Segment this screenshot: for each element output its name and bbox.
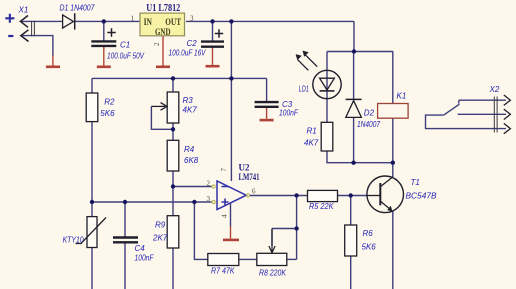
wire op-amp pin4 [230,203,232,226]
wire KTY10 top [91,202,93,217]
wire down to LED anode [326,52,328,123]
wire R9 bottom [172,248,174,289]
potentiometer R8 [257,229,287,278]
wire feedback to R8 wiper [272,229,297,247]
resistor R9 [152,216,179,248]
ground C2 [206,47,220,66]
wire C3 drop [266,78,268,102]
svg-text:R5 22K: R5 22K [309,202,334,211]
svg-text:IN: IN [144,17,153,27]
svg-text:C4: C4 [135,244,146,253]
resistor R1 [304,122,333,151]
svg-text:C1: C1 [120,40,130,49]
connector X1 [5,6,34,42]
svg-text:7: 7 [220,168,228,172]
wire C1 tap [103,21,105,41]
potentiometer R7 [208,254,239,276]
svg-text:GND: GND [155,27,171,37]
wire LED/D2/K1 horizontal [327,51,393,53]
wire C4 bottom [124,242,126,289]
wire T1 collector [392,163,394,177]
ground U1 GND [156,36,170,67]
svg-text:6K8: 6K8 [184,156,199,165]
wire R3 to R4 [172,123,174,140]
svg-text:K1: K1 [397,92,407,101]
junction node C2 tap [210,19,214,23]
resistor R2 [86,93,115,122]
capacitor C2 [169,29,225,57]
diode D2 [346,99,381,129]
wire K1 coil bottom [392,118,394,163]
svg-text:4: 4 [221,214,229,218]
wire X1 plus to D1 [20,20,62,22]
wire R1 bottom to T1 collector node [327,151,393,163]
junction node R8 wiper [294,226,298,230]
junction node C4 top [123,200,127,204]
svg-text:D2: D2 [364,109,375,118]
junction node LED/K1 [352,49,356,53]
wire rail B [92,77,267,79]
svg-text:R7 47K: R7 47K [211,267,235,276]
svg-text:100.0uF 16V: 100.0uF 16V [169,49,207,58]
wire op-amp pin2 line [173,186,212,188]
svg-text:100.0uF 50V: 100.0uF 50V [107,52,145,61]
LED LD1 [296,51,342,99]
svg-text:5K6: 5K6 [100,109,115,118]
svg-text:X2: X2 [489,85,500,94]
svg-text:4K7: 4K7 [183,106,198,115]
svg-text:X1: X1 [18,6,29,15]
svg-text:2: 2 [207,179,211,187]
junction node R5 / R6 [349,193,353,197]
svg-text:R8 220K: R8 220K [259,269,287,278]
ground C1 [97,46,111,67]
svg-text:5K6: 5K6 [362,243,377,252]
wire R3 wiper [151,106,171,129]
junction node R3 wiper [171,127,175,131]
junction node output / R5 [294,193,298,197]
wire R4 bottom to R9 [172,171,174,216]
wire R5 to T1 base [338,195,367,197]
junction node D1-C1 [102,19,106,23]
svg-text:4K7: 4K7 [304,139,319,148]
svg-text:U1 L7812: U1 L7812 [146,3,180,14]
svg-text:KTY10: KTY10 [63,236,84,245]
junction node R7 drop [192,200,196,204]
diode D1 [60,4,95,30]
junction node D2 anode [351,161,355,165]
wire U1 OUT rail to corner [186,20,354,22]
wire down to D2 cathode [353,52,355,100]
junction node K1 / T1 collector [391,161,395,165]
ground op-amp pin4 [223,226,239,240]
junction node KTY10 top [90,200,94,204]
wire D2 anode down [353,118,355,163]
svg-text:C2: C2 [187,39,198,48]
svg-text:3: 3 [207,195,211,203]
svg-text:BC547B: BC547B [406,192,438,201]
wire op-amp pin3 line [92,201,212,203]
junction node rail B / R3 [171,76,175,80]
svg-text:100nF: 100nF [135,254,155,263]
svg-text:LD1: LD1 [299,85,309,94]
svg-text:1: 1 [131,14,135,22]
wire KTY10 bottom [91,248,93,289]
svg-text:1N4007: 1N4007 [357,120,380,129]
svg-text:R1: R1 [307,127,317,136]
regulator U1 [131,3,194,46]
ground C3 [260,107,274,120]
op-amp U2 [207,163,260,219]
wire R3 top [172,78,174,92]
wire feedback vertical [296,196,298,260]
resistor R6 [345,225,377,256]
svg-text:T1: T1 [411,178,420,187]
potentiometer R3 [151,92,197,123]
wire pin3 node down to R7 [194,202,207,259]
svg-text:6: 6 [252,188,256,196]
junction node pin2 / R4 [171,184,175,188]
svg-text:LM741: LM741 [239,172,260,182]
svg-text:2K7: 2K7 [152,234,168,243]
svg-text:R3: R3 [183,96,194,105]
ground X1 minus [46,56,60,67]
wire R6 top [350,196,352,226]
wire C2 tap [212,21,214,41]
capacitor C1 [91,28,144,60]
wire R6 bottom [350,256,352,289]
relay coil K1 [378,92,409,119]
wire R2 bottom to pin3 node [91,122,93,202]
wire R7 to R8 [239,258,257,260]
svg-text:OUT: OUT [165,17,181,27]
svg-text:R6: R6 [363,229,374,238]
transistor T1 [367,176,437,213]
svg-text:R2: R2 [104,98,115,107]
junction node +12V drop [229,19,233,23]
relay contact and connector X2 [426,85,511,134]
capacitor C3 [255,100,299,118]
svg-text:R9: R9 [155,221,166,230]
resistor R4 [167,140,199,171]
capacitor C4 [113,238,154,263]
wire C4 top [124,202,126,237]
svg-text:D1 1N4007: D1 1N4007 [60,4,95,13]
wire R8 right lead [287,258,297,260]
wire down to K1 coil [392,52,394,104]
wire D1 to U1 IN [75,20,140,22]
junction node rail B / pin7 [229,76,233,80]
wire corner down to LED/K1 node [353,21,355,51]
wire X1 minus [21,36,53,56]
wire R2 top [91,78,93,93]
svg-text:2: 2 [153,42,161,46]
resistor R5 [308,190,338,211]
wire T1 emitter down [392,211,394,289]
thermistor KTY10 [63,217,106,248]
wire op-amp output to R5 [250,195,308,197]
svg-text:3: 3 [190,14,194,22]
wire +12V drop to op-amp pin7 [230,21,232,181]
svg-text:100nF: 100nF [279,109,299,118]
svg-text:R4: R4 [184,145,195,154]
